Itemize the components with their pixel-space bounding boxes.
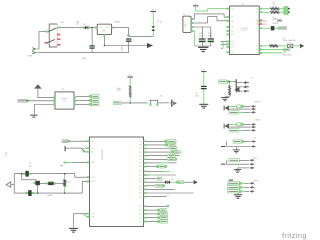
pin SJ1 red pins <box>57 34 60 35</box>
svg-text:XXX: XXX <box>231 21 234 23</box>
net labels IC3 right <box>89 95 92 98</box>
net label AREF <box>167 140 176 143</box>
wire +5V branch <box>129 35 154 37</box>
svg-text:XX: XX <box>256 8 258 10</box>
pin IC1 right y12.2 <box>259 12 261 13</box>
svg-text:FT232RL: FT232RL <box>241 28 249 30</box>
wire OSC row <box>262 45 270 47</box>
capacitor C4 small <box>35 181 40 185</box>
svg-text:100n: 100n <box>195 95 199 97</box>
ground USB <box>198 47 208 51</box>
connector X2 USB pins <box>284 7 288 15</box>
ferrite bead L2 <box>262 27 271 29</box>
svg-text:OUT: OUT <box>106 27 109 29</box>
wire USB GND <box>193 30 195 32</box>
pin X1 D+ <box>191 26 193 27</box>
wire <box>203 72 205 86</box>
resistor R1 27 <box>271 8 280 10</box>
wire g2r1 <box>146 174 150 176</box>
pin IC2 OUT <box>112 27 114 28</box>
wire <box>40 182 46 184</box>
wire GND rail bottom <box>39 52 129 54</box>
svg-text:XXX: XXX <box>231 31 234 33</box>
svg-text:XXX: XXX <box>139 189 142 191</box>
net label RXLED <box>229 111 239 114</box>
pin IC2 IN <box>95 27 97 28</box>
ground IC3 <box>33 111 35 114</box>
svg-text:XXX: XXX <box>139 171 142 173</box>
wire VCC diag <box>82 148 86 152</box>
wire block1 row2 <box>227 146 251 148</box>
svg-text:x1: x1 <box>175 189 177 191</box>
net label RX <box>179 181 183 184</box>
net label RESET left <box>62 140 68 143</box>
pin IC4 right y189.4 <box>144 189 147 190</box>
net arrow left crystal <box>6 182 11 187</box>
pin IC1 right y52.9 <box>259 52 261 53</box>
svg-text:BEAD: BEAD <box>273 18 278 21</box>
wire GND pins <box>74 213 87 215</box>
pin IC1 right y28.2 <box>259 28 261 29</box>
svg-text:XX: XX <box>256 12 258 14</box>
net label D12 <box>168 154 175 157</box>
net label RESET <box>113 101 121 104</box>
svg-text:XX: XX <box>256 49 258 51</box>
resistor box RXLED <box>237 105 241 108</box>
wire +5V to IC1 VCC <box>195 6 197 11</box>
svg-text:PWR: PWR <box>28 56 33 58</box>
net label IC3 input <box>18 99 27 102</box>
net label TXLED <box>229 129 239 132</box>
svg-text:13: 13 <box>181 152 183 154</box>
ground T1 <box>225 96 230 98</box>
wire g1r3 <box>146 151 171 153</box>
power tick block3 <box>229 179 234 182</box>
svg-text:GND: GND <box>82 58 87 60</box>
pin IC1 left y34.5 <box>227 34 230 35</box>
svg-text:XXX: XXX <box>231 41 234 43</box>
net labels block3 <box>228 182 240 185</box>
net label row 53 <box>262 52 282 54</box>
svg-text:gnd: gnd <box>60 165 63 167</box>
wire CBUS green down <box>221 40 227 42</box>
svg-text:100n: 100n <box>283 40 287 42</box>
capacitor C2 <box>126 38 131 39</box>
svg-text:icsp: icsp <box>253 138 256 140</box>
wire <box>90 27 95 29</box>
svg-text:XXX: XXX <box>139 217 142 219</box>
pin IC1 right y23.4 <box>259 23 261 24</box>
svg-text:XXX: XXX <box>139 163 142 165</box>
svg-text:XXX: XXX <box>139 178 142 180</box>
wire <box>11 184 14 186</box>
svg-text:XXX: XXX <box>139 221 142 223</box>
wire USBDP <box>262 11 271 13</box>
wire g2r2 <box>146 178 157 180</box>
pin IC4 right y206.3 <box>144 206 147 207</box>
resistor R2 27 <box>271 11 280 13</box>
svg-text:XXX: XXX <box>231 47 234 49</box>
pin IC1 left y30.8 <box>227 30 230 31</box>
pin IC1 left y44.3 <box>227 44 230 45</box>
wire RXLED row2 <box>229 108 251 110</box>
net label block1 <box>233 140 242 143</box>
pin IC1 right y49.4 <box>259 49 261 50</box>
diode D3 bowtie <box>165 180 168 184</box>
wire TXLED row1 <box>229 123 237 125</box>
svg-text:XXX: XXX <box>139 193 142 195</box>
net arrow RX <box>194 180 198 184</box>
svg-text:XXX: XXX <box>231 8 234 10</box>
svg-text:8: 8 <box>163 178 164 180</box>
pin IC1 left y47.1 <box>227 46 230 47</box>
ground block1 <box>235 147 237 150</box>
svg-text:XXX: XXX <box>139 145 142 147</box>
wire RXLED row3 <box>239 111 244 113</box>
net label g2r4 <box>156 184 163 187</box>
ground block2 <box>237 168 239 169</box>
pins IC3 left <box>53 97 55 98</box>
capacitor C6 series <box>26 192 28 194</box>
pin cap C2 top pad <box>127 35 129 36</box>
svg-text:XTAL: XTAL <box>283 51 287 54</box>
switch SJ1 <box>49 24 57 47</box>
svg-text:XXX: XXX <box>139 214 142 216</box>
svg-text:mh2029: mh2029 <box>273 23 279 25</box>
wire gnd rail <box>195 45 211 47</box>
pin IC4 right y144.9 <box>144 144 147 145</box>
wire XTAL top rail <box>14 173 75 175</box>
svg-text:IC3: IC3 <box>61 89 64 91</box>
wire g2r6 <box>146 192 193 194</box>
pin IC4 right y141.3 <box>144 141 147 142</box>
wire D+ route <box>193 26 211 28</box>
wire <box>38 32 40 50</box>
pin X1 VBUS <box>191 18 193 19</box>
svg-text:XXX: XXX <box>139 196 142 198</box>
wire g3r4 <box>146 221 157 223</box>
net label row 49 <box>262 48 284 50</box>
svg-text:TXLED: TXLED <box>255 120 261 122</box>
wire <box>230 81 234 83</box>
wire g1r4 <box>146 155 167 157</box>
pin IC4 right y193.0 <box>144 192 147 193</box>
pin IC4 right y155.7 <box>144 155 147 156</box>
ground block3 <box>237 193 239 195</box>
wire <box>152 31 154 36</box>
pin SJ1 left green <box>46 31 49 32</box>
net arrow GND right <box>147 43 153 48</box>
net label block2 <box>229 159 240 162</box>
svg-text:XXX: XXX <box>139 159 142 161</box>
net label g3r1 <box>160 209 167 212</box>
net label ADC5 <box>168 143 176 146</box>
svg-text:10k: 10k <box>120 88 122 91</box>
pin IC4 right y221.5 <box>144 221 147 222</box>
component box X osc <box>288 44 293 48</box>
svg-text:XX: XX <box>256 28 258 30</box>
svg-text:serial: serial <box>253 156 258 159</box>
net label D13 <box>174 151 180 154</box>
svg-text:5.0: 5.0 <box>5 155 7 157</box>
pin IC1 right y19.8 <box>259 19 261 20</box>
pin IC4 right y217.7 <box>144 217 147 218</box>
wire VIN top rail <box>60 27 83 29</box>
svg-text:a5: a5 <box>167 195 169 197</box>
pin X1 GND <box>191 30 193 31</box>
wire <box>203 89 205 104</box>
power +5V arrow IC3 <box>34 84 42 88</box>
pin IC1 left y20.8 <box>227 20 230 21</box>
svg-text:R2 27: R2 27 <box>273 6 278 8</box>
pins IC3 right <box>74 97 76 98</box>
svg-text:100n: 100n <box>199 35 203 37</box>
svg-text:78M05: 78M05 <box>114 22 120 24</box>
wire <box>158 102 168 104</box>
wire g1r1 <box>146 144 165 146</box>
pin IC4 right y152.1 <box>144 152 147 153</box>
wire g2r3 <box>146 181 165 183</box>
net label D11 <box>168 158 175 161</box>
pin IC4 right y210.1 <box>144 210 147 211</box>
pin IC1 left y8.7 <box>227 8 230 9</box>
label box ferrite net <box>281 27 286 30</box>
svg-text:XX: XX <box>256 46 258 48</box>
svg-text:100n: 100n <box>208 35 212 37</box>
svg-text:XXX: XXX <box>139 210 142 212</box>
wire <box>121 102 148 104</box>
wire USBDM <box>262 8 271 10</box>
pin X1 D- <box>191 22 193 23</box>
microcontroller IC4 ATMEGA328 <box>90 137 144 227</box>
power tick block2 <box>226 160 228 164</box>
svg-text:fritzing: fritzing <box>282 231 306 240</box>
net arrow right osc <box>300 44 304 48</box>
svg-text:S1: S1 <box>160 96 162 98</box>
pin IC4 right y178.6 <box>144 178 147 179</box>
diode bowtie on +5V <box>151 26 155 28</box>
svg-text:XX: XX <box>256 53 258 55</box>
power +5V symbol <box>150 10 156 13</box>
wire g1r2 <box>146 148 169 150</box>
wire g2r5 <box>146 188 174 190</box>
svg-text:ATMEGA328: ATMEGA328 <box>101 149 104 160</box>
pin IC4 right y182.2 <box>144 182 147 183</box>
wire IC3 third row <box>34 104 53 106</box>
pin IC1 left y27 <box>227 26 230 27</box>
pin IC1 right y45.9 <box>259 45 261 46</box>
ground IC4 <box>69 228 78 232</box>
svg-text:RXLED: RXLED <box>255 102 261 104</box>
svg-text:XXX: XXX <box>139 186 142 188</box>
wire g3r0 <box>146 205 166 207</box>
svg-text:USBVCC: USBVCC <box>258 20 268 22</box>
svg-text:SSOP28: SSOP28 <box>241 30 247 32</box>
net label D10 <box>159 165 165 168</box>
wire OUT to +5V node <box>113 27 128 29</box>
svg-text:3V3: 3V3 <box>63 101 66 103</box>
wire <box>170 181 176 183</box>
wire RXLED row1 <box>229 105 237 107</box>
svg-text:VIN: VIN <box>76 21 79 25</box>
wire <box>91 28 93 46</box>
svg-text:LP2985: LP2985 <box>62 99 68 101</box>
pin IC1 left y41.4 <box>227 41 230 42</box>
wire <box>37 185 39 193</box>
wire g1r0 <box>146 140 164 142</box>
svg-text:XXX: XXX <box>231 34 234 36</box>
svg-text:XXX: XXX <box>139 141 142 143</box>
power +5V symbol RN <box>127 76 133 79</box>
pin IC4 right y175.0 <box>144 174 147 175</box>
svg-text:XXX: XXX <box>139 155 142 157</box>
pins T1 arrows <box>243 81 246 84</box>
svg-text:USBVCC: USBVCC <box>258 24 268 26</box>
power +5V symbol C9 <box>201 70 207 73</box>
pin IC4 right y185.8 <box>144 185 147 186</box>
capacitor C5 series <box>23 173 25 175</box>
pin IC4 right y213.9 <box>144 213 147 214</box>
resistor R below T1 base <box>229 82 231 86</box>
wire to ground <box>73 214 75 225</box>
ground sideways <box>172 100 176 107</box>
wire VCC <box>66 147 82 149</box>
wire step to crystal <box>21 174 23 180</box>
pin IC1 left y52.3 <box>227 52 230 53</box>
wire <box>183 181 193 183</box>
net pad AREF row <box>64 162 66 164</box>
capacitor C1 <box>90 45 95 46</box>
wire g2r4 <box>146 185 155 187</box>
net label g3r4 <box>160 220 168 223</box>
svg-text:XXX: XXX <box>139 175 142 177</box>
wire VBUS route <box>193 18 195 20</box>
wire IC2 GND down <box>103 37 105 46</box>
wire <box>128 42 130 53</box>
pin IC4 right y148.5 <box>144 148 147 149</box>
wire block2 rows <box>239 159 249 161</box>
svg-text:XXX: XXX <box>231 27 234 29</box>
svg-text:XXX: XXX <box>139 206 142 208</box>
svg-text:(byp470n): (byp470n) <box>289 40 297 42</box>
wire <box>37 89 39 98</box>
pin IC4 right y171.4 <box>144 171 147 172</box>
wire +5V down <box>152 12 154 26</box>
wire g2r7 <box>146 196 166 198</box>
svg-text:T1: T1 <box>251 78 253 80</box>
net label D8 <box>157 177 162 180</box>
wire block1 row1 <box>244 141 251 143</box>
pin IC4 right y159.3 <box>144 159 147 160</box>
power +5V symbol USB <box>193 4 199 7</box>
wire <box>26 100 53 102</box>
wire g1r7 <box>146 166 156 168</box>
svg-text:XXX: XXX <box>139 166 142 168</box>
svg-text:0: 0 <box>178 179 179 181</box>
pin IC1 right y8.7 <box>259 8 261 9</box>
wire XTAL2 to IC <box>81 182 83 194</box>
svg-text:XXX: XXX <box>231 17 234 19</box>
svg-text:XXX: XXX <box>139 148 142 150</box>
power bar VCC <box>65 146 66 151</box>
wires IC3 right <box>76 95 90 97</box>
wire <box>91 49 93 53</box>
wire <box>129 98 131 103</box>
wire GND rail mid <box>104 45 146 47</box>
wire XTAL bottom rail <box>14 192 82 194</box>
svg-text:XXX: XXX <box>139 182 142 184</box>
svg-text:power: power <box>253 179 258 182</box>
svg-text:D3: D3 <box>172 179 174 181</box>
pin IC4 right y196.6 <box>144 196 147 197</box>
wire TXLED row2 <box>229 126 251 128</box>
wire XTAL1 to IC <box>74 174 76 178</box>
wire g1r5 <box>146 158 167 160</box>
svg-text:22p: 22p <box>29 165 32 167</box>
wire cap branches <box>201 27 203 38</box>
net label ADC4 <box>170 147 177 150</box>
resistor box TXLED <box>237 123 241 126</box>
net label g3r2 <box>160 212 168 215</box>
svg-text:XXX: XXX <box>139 152 142 154</box>
svg-text:XXX: XXX <box>231 44 234 46</box>
pin IC1 left y17.1 <box>227 16 230 17</box>
svg-text:XXX: XXX <box>231 52 234 54</box>
net label T1 base <box>219 80 227 83</box>
node junction VIN <box>91 27 93 29</box>
pin IC2 GND <box>104 35 105 37</box>
svg-text:16MHz: 16MHz <box>47 195 53 197</box>
wire g3r1 <box>146 209 157 211</box>
power tick block1 <box>226 142 228 147</box>
wire g3r3 <box>146 217 157 219</box>
wire TXLED row3 <box>239 129 244 131</box>
wire <box>129 78 131 86</box>
ground C9 <box>199 104 208 108</box>
pin IC4 right y162.9 <box>144 162 147 163</box>
net label g3r3 <box>160 216 168 219</box>
pin SJ1 right-top green <box>57 27 60 28</box>
net arrow PWR-VIN <box>32 48 35 51</box>
wire g1r6 <box>146 162 161 164</box>
pin IC4 right y166.5 <box>144 166 147 167</box>
svg-text:GND: GND <box>122 46 124 51</box>
net arrow PWR-GND <box>32 51 35 54</box>
wire D- route <box>193 22 208 24</box>
wire g3r2 <box>146 213 157 215</box>
resistor on OSC row <box>270 45 278 47</box>
svg-text:IC1: IC1 <box>242 3 245 5</box>
wire g2r0 <box>146 170 162 172</box>
wire RESET <box>70 140 87 142</box>
svg-text:RST: RST <box>91 141 94 143</box>
